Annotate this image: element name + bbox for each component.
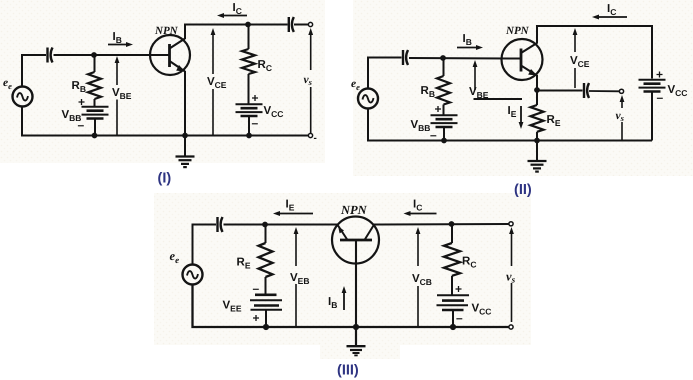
label IB [113, 31, 122, 45]
wire: collector of Q1 to top rail [184, 25, 186, 40]
wire: collector of Q2 to top rail [536, 26, 538, 44]
node: bottom rail junction under RB [92, 133, 98, 139]
resistor RB (II) [437, 76, 450, 105]
measure arrow vs (III) [509, 227, 514, 322]
wire: capacitor to base [409, 57, 521, 60]
measure arrow VCE [211, 28, 216, 136]
label IC [233, 2, 242, 16]
label VCC (III) [472, 303, 492, 317]
wire: VCC to bottom rail (III) [452, 310, 454, 327]
wire: junction down to RC [248, 25, 250, 50]
node: base junction on bottom rail (III) [353, 324, 359, 330]
label RE (II) [547, 114, 561, 128]
label VCB (III) [412, 273, 432, 287]
label IC (II) [607, 3, 616, 17]
label RC [258, 59, 272, 73]
node: base junction [91, 52, 97, 58]
wire: source to input capacitor [368, 58, 402, 89]
label VBE (II) [469, 86, 489, 100]
label + of VBB (II) [435, 102, 442, 116]
ground (III) [347, 346, 366, 355]
svg-text:+: + [455, 282, 462, 296]
svg-text:NPN: NPN [340, 203, 368, 217]
wire: emitter of Q2 down to emitter node [536, 75, 538, 105]
svg-text:(I): (I) [158, 171, 172, 187]
capacitor C1 input [48, 48, 53, 63]
wire: VEE to bottom rail (III) [265, 310, 267, 327]
label e_e (III) [170, 249, 180, 265]
wire: junction to RB [443, 58, 445, 76]
label VBB [62, 109, 82, 123]
wire: source top to input capacitor [22, 55, 46, 87]
arrow IC [217, 13, 247, 18]
label - of VBB (II) [430, 128, 437, 142]
battery VCC (III) [437, 295, 470, 310]
label VEB (III) [290, 272, 309, 286]
measure arrow VBE [115, 56, 120, 136]
AC source e_e (III) [183, 265, 203, 285]
svg-text:(III): (III) [337, 363, 359, 379]
label + of VCC (III) [455, 282, 462, 296]
transistor Q3 NPN [332, 217, 379, 264]
measure arrow vs (II) [620, 95, 625, 141]
label RB [72, 80, 86, 94]
label - of VCC [252, 116, 259, 130]
label e_e [351, 78, 360, 92]
terminal: output bottom [308, 133, 312, 137]
wire: VBB to bottom rail [94, 119, 96, 136]
wire: junction down to RC (III) [451, 224, 453, 243]
terminal: output bottom (III) [509, 325, 513, 329]
wire: collector rail (III) [373, 223, 510, 226]
wire: RE to bottom rail (II) [536, 132, 538, 141]
wire: VCC to bottom rail (II) [651, 92, 653, 141]
label + of VBB [78, 95, 85, 109]
svg-text:+: + [253, 311, 260, 325]
arrow IB (III) [342, 286, 347, 310]
wire: bottom rail (III) [193, 285, 509, 328]
resistor RB [88, 72, 101, 99]
wire: junction down to RE (III) [265, 225, 267, 244]
wire: RE to battery VEE (III) [265, 277, 267, 295]
arrow IC (II) [592, 15, 627, 20]
wire: VCC to bottom rail [248, 116, 250, 136]
resistor RE (III) [259, 243, 273, 277]
transistor Q2 NPN [502, 39, 543, 80]
resistor RE (II) [531, 105, 544, 132]
wire: bottom rail [22, 107, 309, 136]
svg-text:+: + [252, 91, 259, 105]
capacitor C5 input (III) [218, 217, 223, 232]
label VCE [207, 76, 227, 90]
label VBE [112, 87, 132, 101]
label RE (III) [237, 257, 251, 271]
svg-text:NPN: NPN [154, 25, 179, 37]
label (I) [158, 171, 172, 187]
svg-text:-: - [314, 133, 317, 144]
wire: capacitor to output terminal (II) [589, 90, 620, 92]
wire: RC to battery VCC (III) [451, 276, 453, 296]
wire: base of Q3 to bottom rail [355, 240, 357, 327]
wire: ground stem (II) [536, 141, 538, 161]
node: emitter rail junction (III) [262, 222, 268, 228]
measure arrow vs [308, 28, 313, 133]
svg-text:(II): (II) [514, 182, 532, 198]
battery VBB [82, 107, 109, 119]
arrow IB [108, 42, 133, 47]
label IE (II) [508, 105, 517, 119]
svg-text:+: + [435, 102, 442, 116]
label VCC [264, 105, 284, 119]
label VEE (III) [223, 300, 242, 314]
arrow IB (II) [457, 45, 483, 50]
wire: junction down to RB [94, 55, 96, 72]
resistor RC [242, 49, 255, 74]
ground [176, 157, 195, 168]
wire: emitter node to output capacitor (II) [537, 90, 583, 92]
reference bar of VBE (II) [474, 98, 523, 100]
measure arrow VCB (III) [416, 227, 421, 327]
arrow IE (II) [519, 106, 524, 129]
label vs (II) [616, 110, 625, 123]
label NPN of Q1 [154, 25, 179, 37]
wire: top rail (II) [536, 26, 652, 79]
resistor RC (III) [444, 243, 460, 276]
label RB (II) [421, 85, 435, 99]
wire: emitter of Q1 to bottom rail [184, 71, 186, 136]
measure arrow VCE (II) [573, 28, 578, 88]
wire: ground stem (III) [355, 327, 357, 346]
battery VCC [236, 104, 263, 116]
node: base junction [440, 55, 446, 61]
label VBB (II) [411, 119, 431, 133]
label VCC (II) [668, 84, 688, 98]
label NPN of Q2 [505, 25, 530, 37]
wire: capacitor to output terminal [294, 24, 309, 26]
label e_a [3, 77, 12, 91]
node: emitter junction (II) [534, 87, 540, 93]
node: collector rail junction at RC (III) [449, 221, 455, 227]
node: top rail junction at RC [245, 22, 251, 28]
node: bottom rail junction under RE [534, 138, 540, 144]
wire: RC to battery VCC [248, 74, 250, 104]
wire: source to bottom rail and bottom rail (II) [368, 109, 652, 141]
node: bottom rail junction under VBB [441, 138, 447, 144]
label - of VBB [78, 118, 85, 132]
capacitor C2 output [289, 17, 294, 32]
battery VEE (III) [250, 295, 282, 310]
label + of VCC (II) [656, 68, 663, 82]
label - of VCC (II) [657, 91, 664, 105]
arrow IC (III) [404, 211, 437, 216]
svg-text:NPN: NPN [505, 25, 530, 37]
wire: RB to battery VBB [94, 99, 96, 107]
AC source e_e [358, 89, 378, 109]
capacitor C4 output (II) [584, 83, 589, 98]
label + of VEE (III) [253, 311, 260, 325]
svg-text:+: + [78, 95, 85, 109]
label - of VCC (III) [456, 311, 463, 325]
ground (II) [528, 161, 547, 172]
label (III) [337, 363, 359, 379]
label - of output [314, 133, 317, 144]
terminal: output top (III) [509, 222, 513, 226]
svg-text:–: – [657, 91, 664, 105]
label IC (III) [413, 199, 422, 213]
svg-text:–: – [456, 311, 463, 325]
label vs (III) [506, 270, 516, 285]
wire: capacitor to emitter rail (III) [224, 224, 339, 226]
transistor Q1 NPN [150, 35, 190, 75]
wire: source to input capacitor (III) [193, 225, 217, 265]
label vs [304, 74, 313, 87]
terminal: output (II) [619, 89, 623, 93]
capacitor C3 input [403, 50, 408, 65]
wire: top rail [184, 24, 288, 26]
measure arrow VEB (III) [294, 227, 299, 327]
svg-text:–: – [253, 282, 260, 296]
node: bottom rail junction under VCC [246, 133, 252, 139]
wire: capacitor to base [54, 54, 170, 56]
battery VBB (II) [431, 115, 458, 127]
label NPN of Q3 [340, 203, 368, 217]
wire: ground stem [184, 136, 186, 157]
node: bottom rail junction under VCC (III) [450, 324, 456, 330]
label IB (II) [463, 33, 472, 47]
node: emitter junction on bottom rail [182, 133, 188, 139]
label + of VCC [252, 91, 259, 105]
label - of VEE (III) [253, 282, 260, 296]
node: bottom rail junction under VEE [263, 324, 269, 330]
label (II) [514, 182, 532, 198]
measure arrow VBE (II) [473, 60, 478, 90]
label RC (III) [462, 256, 476, 270]
label IB (III) [328, 296, 337, 310]
label VCE (II) [570, 55, 590, 69]
label IE (III) [286, 199, 295, 213]
wire: VBB to bottom rail (II) [443, 127, 445, 141]
AC source e_a [13, 87, 33, 107]
svg-text:–: – [78, 118, 85, 132]
battery VCC (II) [639, 80, 666, 92]
terminal: output top [308, 22, 312, 26]
arrow IE (III) [273, 211, 313, 216]
wire: RB to VBB (II) [443, 105, 445, 116]
svg-text:–: – [252, 116, 259, 130]
